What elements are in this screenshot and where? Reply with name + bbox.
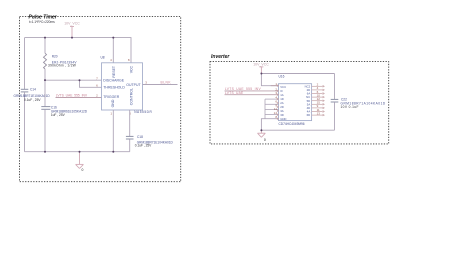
wire: R20 to DISCHARGE pin 7	[45, 79, 102, 81]
net label LVTS_UAE	[225, 91, 279, 95]
op-amp U8 555 timer box	[102, 63, 143, 110]
pin stubs U16 left	[271, 85, 279, 87]
svg-text:TRIGGER: TRIGGER	[103, 95, 119, 99]
svg-text:R20: R20	[52, 55, 58, 59]
svg-text:VCC: VCC	[130, 65, 134, 73]
svg-text:6D: 6D	[307, 113, 311, 117]
svg-text:C18: C18	[137, 135, 143, 139]
svg-text:GND: GND	[280, 117, 286, 121]
svg-text:1uF , 25V: 1uF , 25V	[51, 113, 66, 117]
svg-text:13: 13	[317, 111, 321, 115]
capacitor C16	[41, 80, 87, 152]
svg-text:0.1uF , 25V: 0.1uF , 25V	[135, 144, 152, 148]
svg-text:t=1.1*R*C=220ms: t=1.1*R*C=220ms	[29, 20, 55, 24]
junction dots (right block)	[260, 73, 262, 132]
svg-text:10V_VCC: 10V_VCC	[253, 63, 269, 67]
net label LVTS_UAE_555_INV (trigger)	[56, 94, 102, 98]
svg-text:Inverter: Inverter	[211, 54, 230, 60]
ground symbol (right block)	[258, 130, 266, 137]
svg-text:390kOhm , 1/2W: 390kOhm , 1/2W	[48, 64, 76, 68]
svg-text:0: 0	[82, 168, 84, 172]
resistor R20	[44, 38, 78, 81]
ground symbol (left block)	[76, 152, 84, 169]
frame: Pulse Timer block dashed border	[20, 17, 181, 182]
pin end arrows U16 right	[323, 85, 325, 116]
power flag 10V_VCC (left block)	[70, 27, 74, 38]
pin stubs U16 right	[312, 86, 323, 115]
wire: unused input tie rail	[265, 99, 279, 119]
pin names U16 left column	[280, 85, 286, 121]
junction dots (left block)	[44, 37, 114, 153]
IC U16 hex inverter box	[279, 84, 312, 121]
wire: OUTPUT to BLNK	[143, 84, 178, 86]
svg-text:U16: U16	[279, 75, 285, 79]
svg-text:LVTS_UAE_555_INV: LVTS_UAE_555_INV	[56, 94, 88, 98]
net label LVTS_UAE_555_INV (input)	[225, 87, 279, 91]
svg-text:DISCHARGE: DISCHARGE	[103, 78, 124, 82]
svg-text:0.1uF , 25V: 0.1uF , 25V	[24, 98, 41, 102]
wire: bottom ground run	[261, 129, 334, 131]
power flag 10V_VCC (right block)	[259, 67, 263, 74]
wire: VCC top run to bypass cap	[261, 73, 334, 75]
svg-text:BLNK: BLNK	[161, 81, 172, 85]
capacitor C22	[331, 74, 386, 131]
svg-text:GND: GND	[111, 99, 115, 107]
svg-text:10V_VCC: 10V_VCC	[64, 22, 80, 26]
wire: GND pin down	[112, 110, 114, 152]
svg-text:RESET: RESET	[112, 65, 116, 78]
svg-text:CD74HC4049M96: CD74HC4049M96	[279, 122, 305, 126]
svg-text:U8: U8	[101, 56, 105, 60]
svg-text:CONTROL: CONTROL	[130, 88, 134, 105]
pin end arrows U16 left	[277, 85, 279, 120]
wire: ground bus	[25, 151, 130, 153]
svg-text:10V 0.1uF: 10V 0.1uF	[341, 105, 359, 109]
svg-text:NA555DR: NA555DR	[134, 110, 152, 114]
svg-text:C14: C14	[30, 88, 36, 92]
wire: GND pin to ground	[261, 119, 278, 131]
svg-text:0: 0	[264, 138, 266, 142]
svg-text:OUTPUT: OUTPUT	[126, 83, 141, 87]
wire: RESET pin drop	[112, 38, 114, 63]
wire: VCC stem to pin 1	[261, 74, 278, 86]
wire: branch to THRESHOLD pin 6	[80, 80, 102, 87]
wire: top VCC bus	[25, 38, 132, 63]
svg-text:THRESHOLD: THRESHOLD	[103, 86, 125, 90]
pin numbers U16 right	[317, 83, 321, 116]
pin numbers U16 left	[274, 82, 278, 119]
pin names U16 right column	[305, 84, 311, 117]
capacitor C18 (control pin)	[126, 110, 174, 152]
capacitor C14	[14, 38, 51, 152]
svg-text:LVTS_UAE: LVTS_UAE	[225, 91, 244, 95]
frame: Inverter block dashed border	[210, 62, 389, 144]
